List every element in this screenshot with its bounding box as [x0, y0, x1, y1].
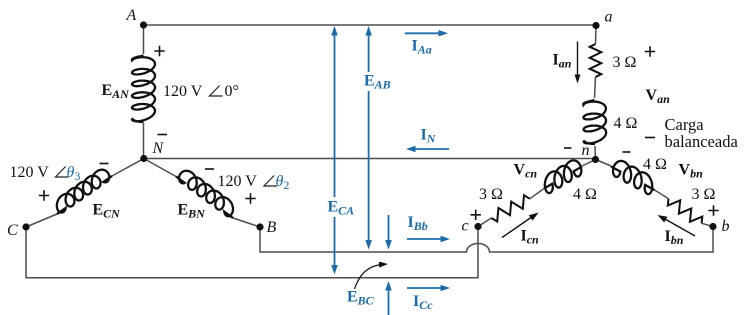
svg-text:IBb: IBb	[408, 214, 428, 233]
current arrow I_Bb	[407, 238, 443, 240]
svg-text:ECN: ECN	[93, 202, 122, 221]
resistor 3 ohm a branch	[590, 44, 602, 77]
inductor 4 ohm a branch	[583, 100, 606, 144]
current arrow I_an	[577, 42, 579, 77]
svg-text:ECA: ECA	[328, 199, 355, 218]
node c junction dot	[474, 223, 481, 230]
svg-text:A: A	[126, 7, 137, 24]
minus sign EAN bottom above N	[158, 134, 168, 136]
node B junction dot	[256, 223, 263, 230]
minus sign Van bottom	[645, 137, 655, 139]
voltage arrow E_CA double-headed	[334, 28, 336, 197]
svg-text:C: C	[7, 222, 18, 239]
svg-text:120 V: 120 V	[10, 164, 50, 181]
node N junction dot	[140, 155, 147, 162]
plus sign EBN at B side	[245, 193, 255, 203]
current arrow I_cn	[502, 218, 531, 238]
angle symbol for 120V angle theta2	[264, 176, 277, 187]
current arrow I_Cc	[407, 287, 443, 289]
svg-text:a: a	[605, 9, 613, 26]
svg-text:Ibn: Ibn	[665, 228, 684, 247]
wire C down and right to c	[26, 227, 478, 278]
voltage arrow E_BC upper segment	[388, 215, 390, 246]
svg-text:120 V: 120 V	[218, 173, 258, 190]
wire a down to resistor 3ohm	[595, 25, 598, 44]
resistor 3 ohm b branch	[668, 199, 703, 224]
node A junction dot	[140, 21, 147, 28]
wire A down to coil EAN	[143, 25, 145, 54]
svg-text:IAa: IAa	[412, 38, 432, 57]
svg-text:ICc: ICc	[413, 293, 433, 312]
plus sign EAN top	[154, 46, 164, 56]
svg-text:0°: 0°	[225, 83, 239, 100]
plus sign ECN at C side	[39, 190, 49, 200]
curved arrow for E_BC	[355, 265, 383, 290]
svg-text:120 V: 120 V	[163, 83, 203, 100]
plus sign Vbn at b side	[708, 205, 718, 215]
svg-text:Vbn: Vbn	[679, 162, 704, 181]
inductor coil EAN	[132, 56, 155, 123]
wire n to coil b branch	[596, 160, 612, 167]
svg-text:b: b	[722, 218, 730, 235]
minus sign Vcn at n side	[564, 147, 572, 149]
current arrow I_Aa	[405, 32, 441, 34]
svg-text:balanceada: balanceada	[665, 132, 739, 151]
wire ECN coil to C	[26, 214, 57, 227]
wire coil EAN to N	[143, 123, 145, 159]
svg-text:4 Ω: 4 Ω	[643, 156, 667, 173]
minus sign ECN at N side	[100, 163, 109, 165]
svg-text:3 Ω: 3 Ω	[479, 186, 503, 203]
node n junction dot	[592, 156, 599, 163]
wire resistor to b node	[702, 223, 713, 226]
wire resistor to c node	[478, 218, 491, 227]
svg-text:EBN: EBN	[178, 202, 207, 221]
inductor 4 ohm b branch	[611, 161, 655, 194]
minus sign Vbn at n side	[623, 151, 631, 153]
svg-text:EBC: EBC	[347, 289, 375, 308]
wire top line A to a	[144, 24, 597, 26]
node a junction dot	[592, 22, 599, 29]
svg-text:Ian: Ian	[553, 52, 572, 71]
current arrow I_N	[413, 148, 449, 150]
wire n to coil c branch	[582, 160, 596, 167]
plus sign Van top	[645, 46, 655, 56]
svg-text:B: B	[267, 219, 277, 236]
inductor coil ECN	[57, 170, 112, 214]
wire neutral N to n	[144, 158, 596, 160]
wire coil to n a branch	[594, 146, 597, 160]
voltage arrow E_BC lower segment	[388, 285, 390, 315]
inductor 4 ohm c branch	[544, 160, 582, 193]
svg-text:Van: Van	[646, 87, 671, 106]
current arrow I_bn	[665, 219, 695, 236]
node b junction dot	[709, 223, 716, 230]
voltage arrow E_AB double-headed	[368, 28, 370, 72]
svg-text:Vcn: Vcn	[514, 162, 538, 181]
svg-text:c: c	[462, 218, 469, 235]
wire N to ECN coil	[112, 159, 144, 177]
inductor coil EBN	[176, 171, 233, 218]
svg-text:4 Ω: 4 Ω	[573, 186, 597, 203]
plus sign Vcn at c side	[471, 210, 481, 220]
svg-text:3 Ω: 3 Ω	[692, 186, 716, 203]
angle symbol for 120V angle 0	[210, 86, 223, 97]
wire EBN coil to B	[233, 218, 260, 227]
svg-text:4 Ω: 4 Ω	[614, 115, 638, 132]
node C junction dot	[22, 223, 29, 230]
angle symbol for 120V angle theta3	[56, 167, 69, 178]
svg-text:Icn: Icn	[521, 228, 540, 247]
svg-text:IN: IN	[421, 127, 437, 146]
svg-text:EAN: EAN	[102, 82, 131, 101]
wire B down right with hop over c wire and up to b	[260, 227, 713, 253]
wire coil to resistor c branch	[530, 189, 544, 199]
svg-text:EAB: EAB	[364, 73, 391, 92]
svg-text:3 Ω: 3 Ω	[613, 54, 637, 71]
wire N to EBN coil	[144, 159, 176, 177]
svg-text:θ3: θ3	[67, 164, 81, 183]
minus sign EBN at N side	[205, 168, 214, 170]
svg-text:N: N	[152, 140, 165, 157]
resistor 3 ohm c branch	[491, 195, 529, 221]
svg-text:θ2: θ2	[276, 173, 290, 192]
svg-text:n: n	[582, 142, 590, 159]
wire coil to resistor b branch	[655, 190, 669, 199]
wire resistor to coil a branch	[595, 77, 596, 98]
